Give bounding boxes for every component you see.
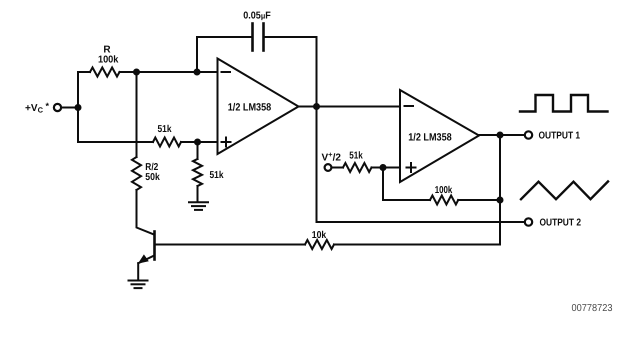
op-amp U1 1/2 LM358	[218, 59, 299, 155]
triangle wave icon (OUTPUT 2)	[521, 182, 608, 200]
svg-text:51k: 51k	[349, 151, 363, 162]
op-amp U2 1/2 LM358	[400, 90, 479, 182]
wire node C up to capacitor	[196, 37, 198, 72]
node A junction dot	[75, 104, 82, 111]
node H junction dot (U2 output)	[497, 132, 504, 139]
wire transistor base to 10k	[155, 244, 305, 246]
svg-text:10k: 10k	[312, 230, 327, 241]
wire V+/2 terminal to 51k	[332, 167, 344, 169]
ground symbol (Q1 emitter)	[129, 281, 148, 289]
wire 51k resistor to ground	[197, 186, 199, 202]
svg-text:50k: 50k	[145, 172, 160, 183]
resistor 100k (hysteresis feedback)	[430, 196, 458, 205]
wire left vertical branch	[77, 72, 79, 142]
svg-text:OUTPUT 1: OUTPUT 1	[539, 131, 581, 142]
wire node E down to OUTPUT 2 row	[316, 107, 318, 223]
wire terminal to node A	[62, 107, 79, 109]
transistor Q1 base bar	[153, 232, 156, 260]
U1 minus sign	[222, 71, 231, 73]
wire OUTPUT 2 row	[317, 221, 525, 223]
svg-text:100k: 100k	[98, 55, 119, 66]
wire R/2 to transistor collector	[137, 190, 154, 234]
svg-text:51k: 51k	[210, 170, 224, 181]
terminal +Vc input	[54, 104, 61, 111]
capacitor 0.05uF	[253, 24, 264, 51]
svg-text:100k: 100k	[435, 185, 453, 196]
node B junction dot (R / Rhalf)	[133, 69, 140, 76]
resistor 51k to ground	[193, 159, 202, 186]
node G junction dot (feedback tap)	[497, 197, 504, 204]
svg-text:OUTPUT 2: OUTPUT 2	[540, 218, 582, 229]
svg-text:00778723: 00778723	[572, 303, 613, 314]
square wave icon (OUTPUT 1)	[520, 95, 608, 112]
transistor Q1 emitter with arrow	[138, 254, 154, 279]
wire node B down to resistor R/2	[136, 72, 138, 157]
node F junction dot (U2 plus input)	[380, 164, 387, 171]
ground symbol (51k)	[189, 202, 208, 210]
wire 100k to node G	[458, 199, 500, 201]
wire node F down to 100k	[383, 168, 430, 201]
terminal OUTPUT 1	[525, 131, 532, 138]
resistor 51k (V+/2)	[343, 163, 372, 172]
wire 51k to op-amp U1 plus input	[181, 141, 218, 143]
wire 10k to node H vertical	[334, 244, 500, 246]
node D junction dot (plus input)	[194, 139, 201, 146]
wire 51k to U2 plus input	[372, 167, 401, 169]
wire node A top to resistor R	[78, 71, 90, 73]
wire node D down to 51k ground resistor	[197, 142, 199, 159]
svg-text:0.05μF: 0.05μF	[243, 10, 271, 21]
wire capacitor right lead down to U1 output node	[265, 37, 317, 107]
svg-text:1/2 LM358: 1/2 LM358	[228, 101, 272, 113]
wire R to inverting input op-amp U1	[120, 71, 218, 73]
resistor R/2 50k	[132, 157, 141, 190]
resistor R 100k	[90, 68, 120, 77]
wire capacitor left lead	[197, 36, 252, 38]
svg-text:51k: 51k	[158, 124, 172, 135]
wire node H down to 10k row	[499, 135, 501, 245]
node C junction dot (feedback tap)	[194, 69, 201, 76]
U2 minus sign	[405, 105, 414, 107]
U2 plus sign	[407, 163, 416, 172]
svg-text:1/2 LM358: 1/2 LM358	[408, 131, 452, 143]
node E junction dot (U1 output)	[313, 103, 320, 110]
resistor 51k (non-inverting input)	[153, 138, 181, 147]
wire U2 output to OUTPUT 1	[479, 134, 525, 136]
terminal OUTPUT 2	[525, 218, 532, 225]
U1 plus sign	[222, 138, 231, 147]
wire node A bottom to resistor 51k	[78, 141, 153, 143]
resistor 10k	[305, 240, 334, 249]
wire U1 output to U2 inverting input	[299, 106, 401, 108]
terminal V+/2 input	[325, 164, 332, 171]
